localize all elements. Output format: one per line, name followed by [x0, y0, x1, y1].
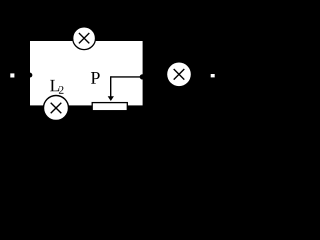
circuit loop interior (white panel bounded by top wire, left wire, right wire, bottom wire)	[30, 41, 143, 105]
label L2	[50, 80, 63, 94]
rheostat wiper wire (horizontal from right wire)	[111, 76, 143, 78]
label P	[91, 72, 100, 84]
rheostat P body	[92, 103, 127, 111]
right terminal	[211, 74, 215, 77]
lamp L2 (bottom left, on bottom wire)	[44, 96, 69, 121]
junction node on right wire	[140, 74, 145, 79]
lamp L3 (right, on external wire)	[167, 63, 191, 87]
rheostat wiper wire (vertical down)	[110, 76, 112, 96]
junction node on left wire	[27, 73, 32, 78]
rheostat wiper arrowhead	[108, 96, 114, 101]
lamp L1 (top, on top wire)	[73, 27, 96, 50]
left terminal	[10, 73, 14, 77]
